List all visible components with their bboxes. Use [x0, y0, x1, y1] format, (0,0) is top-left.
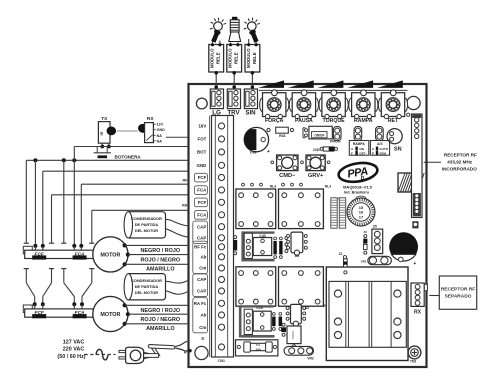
- svg-text:A/S: A/S: [377, 142, 383, 146]
- svg-text:F: F: [351, 152, 353, 156]
- svg-text:NA: NA: [157, 139, 163, 143]
- svg-text:BOT: BOT: [197, 150, 207, 155]
- svg-text:MODULO: MODULO: [210, 48, 215, 68]
- svg-text:16A: 16A: [255, 348, 261, 352]
- svg-text:GND: GND: [197, 163, 207, 168]
- svg-text:Cm: Cm: [199, 325, 206, 330]
- svg-text:C43: C43: [259, 234, 265, 238]
- svg-text:RAMPA: RAMPA: [354, 118, 373, 124]
- svg-text:ROJO / NEGRO: ROJO / NEGRO: [141, 317, 181, 323]
- svg-text:Cm: Cm: [199, 266, 206, 271]
- svg-text:RX: RX: [147, 116, 154, 122]
- svg-text:RECEPTOR RF: RECEPTOR RF: [444, 152, 477, 157]
- svg-text:RL4: RL4: [270, 185, 276, 189]
- svg-text:CAP: CAP: [197, 236, 206, 241]
- svg-text:RF: RF: [183, 179, 189, 183]
- svg-text:VR2: VR2: [307, 357, 314, 361]
- svg-text:VR1: VR1: [361, 260, 367, 264]
- svg-text:SEM: SEM: [379, 152, 386, 156]
- svg-text:DEL MOTOR: DEL MOTOR: [135, 290, 158, 295]
- svg-text:FORÇA: FORÇA: [265, 118, 284, 124]
- svg-text:INCORPORADO: INCORPORADO: [442, 167, 477, 172]
- svg-text:AMARILLO: AMARILLO: [146, 267, 174, 273]
- svg-text:RELE: RELE: [234, 52, 239, 64]
- svg-text:CAP: CAP: [197, 277, 206, 282]
- svg-text:FCA: FCA: [197, 213, 207, 218]
- svg-text:U2: U2: [305, 306, 309, 310]
- svg-text:AUTO: AUTO: [379, 147, 388, 151]
- svg-text:RECEPTOR RF: RECEPTOR RF: [441, 286, 475, 292]
- svg-text:U5: U5: [373, 225, 377, 229]
- svg-text:ON/OF: ON/OF: [314, 134, 324, 138]
- svg-text:MOTOR: MOTOR: [100, 312, 120, 318]
- svg-text:C48: C48: [250, 151, 257, 155]
- svg-text:PAUSA: PAUSA: [295, 118, 313, 124]
- svg-text:17: 17: [359, 214, 364, 219]
- svg-text:+: +: [267, 149, 270, 155]
- svg-text:RA: RA: [182, 203, 188, 207]
- svg-text:NEGRO / ROJO: NEGRO / ROJO: [141, 308, 181, 314]
- svg-text:MODULO: MODULO: [228, 48, 233, 68]
- svg-text:SEPARADO: SEPARADO: [445, 293, 472, 299]
- svg-text:TORQUE: TORQUE: [323, 118, 346, 124]
- svg-text:ON: ON: [359, 147, 364, 151]
- svg-text:IR: IR: [99, 131, 104, 135]
- svg-text:TX: TX: [101, 116, 108, 122]
- svg-text:DEL MOTOR: DEL MOTOR: [135, 228, 158, 233]
- svg-text:22Ω: 22Ω: [313, 148, 320, 152]
- svg-text:+: +: [413, 261, 416, 267]
- svg-text:AMARILLO: AMARILLO: [146, 326, 174, 332]
- svg-text:127 VAC: 127 VAC: [63, 339, 85, 345]
- svg-text:FCF: FCF: [198, 200, 207, 205]
- svg-text:C16: C16: [256, 306, 262, 310]
- svg-text:CAP: CAP: [197, 224, 206, 229]
- svg-text:CAP: CAP: [197, 289, 206, 294]
- svg-text:S: S: [201, 336, 204, 341]
- svg-text:SN: SN: [394, 147, 402, 153]
- svg-text:RET: RET: [388, 118, 399, 124]
- svg-text:RELE: RELE: [216, 52, 221, 64]
- svg-text:MODULO: MODULO: [246, 48, 251, 68]
- svg-text:Z1: Z1: [339, 252, 343, 256]
- svg-text:R43: R43: [279, 134, 285, 138]
- svg-text:NEGRO / ROJO: NEGRO / ROJO: [141, 248, 181, 254]
- svg-text:Z3: Z3: [363, 230, 367, 234]
- svg-text:DE PARTIDA: DE PARTIDA: [135, 222, 159, 227]
- svg-text:CMD−: CMD−: [279, 173, 296, 179]
- svg-text:F1: F1: [256, 343, 260, 347]
- svg-text:433,92 MHz: 433,92 MHz: [447, 159, 472, 164]
- svg-text:TM1: TM1: [410, 360, 417, 364]
- svg-text:RAMPA: RAMPA: [353, 142, 365, 146]
- svg-text:RA Fc: RA Fc: [194, 301, 207, 306]
- svg-text:TRIAC: TRIAC: [291, 330, 295, 340]
- svg-text:CN1: CN1: [218, 359, 225, 363]
- svg-text:CONDENSADOR: CONDENSADOR: [131, 278, 162, 283]
- svg-text:U3: U3: [295, 254, 299, 258]
- svg-text:ROJO / NEGRO: ROJO / NEGRO: [141, 257, 181, 263]
- svg-text:FOT: FOT: [198, 137, 207, 142]
- svg-text:RF Fc: RF Fc: [194, 245, 207, 250]
- svg-text:RL3: RL3: [325, 185, 331, 189]
- svg-text:12V: 12V: [157, 123, 164, 127]
- svg-text:GND: GND: [157, 128, 166, 132]
- svg-text:GRV+: GRV+: [308, 173, 324, 179]
- svg-text:Ab: Ab: [200, 255, 206, 260]
- svg-text:220 VAC: 220 VAC: [63, 347, 85, 353]
- svg-text:SIN: SIN: [245, 109, 256, 116]
- svg-text:RX: RX: [414, 309, 422, 315]
- svg-text:OFF: OFF: [359, 152, 365, 156]
- svg-text:MOTOR: MOTOR: [100, 253, 120, 259]
- svg-text:FCF: FCF: [198, 175, 207, 180]
- svg-text:MAQ0018−V1.5: MAQ0018−V1.5: [343, 184, 373, 189]
- svg-text:NA: NA: [157, 134, 163, 138]
- svg-text:DE PARTIDA: DE PARTIDA: [135, 284, 159, 289]
- svg-text:BOTONERA: BOTONERA: [115, 154, 142, 159]
- svg-text:CONDENSADOR: CONDENSADOR: [131, 216, 162, 221]
- svg-text:Ind. Brasileiro: Ind. Brasileiro: [344, 191, 370, 195]
- svg-text:(50 / 60 Hz): (50 / 60 Hz): [57, 354, 85, 360]
- svg-text:RELE: RELE: [252, 52, 257, 64]
- svg-text:FCA: FCA: [197, 188, 207, 193]
- svg-text:P: P: [372, 152, 374, 156]
- svg-text:16V: 16V: [198, 124, 206, 129]
- svg-text:Ab: Ab: [200, 313, 206, 318]
